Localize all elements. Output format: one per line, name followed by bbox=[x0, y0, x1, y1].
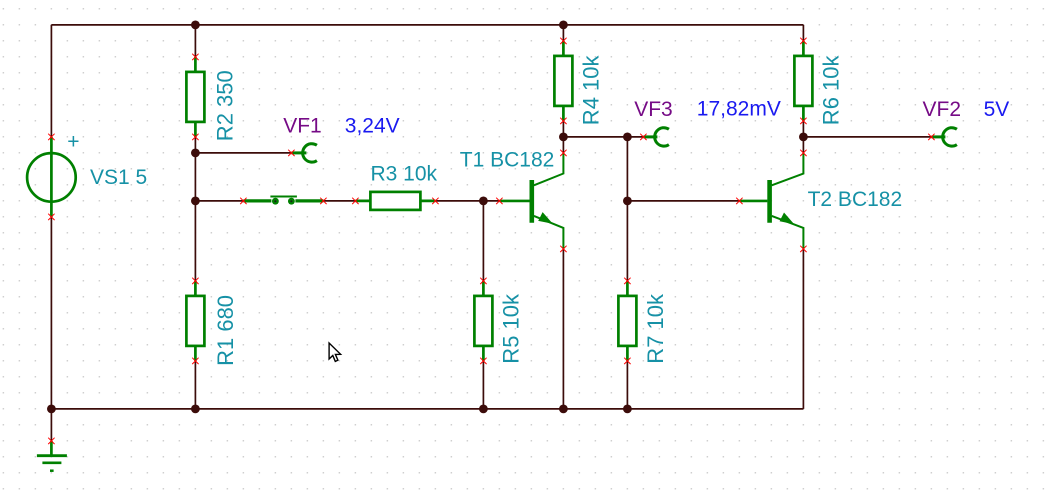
probe VF3 bbox=[634, 98, 781, 146]
R2 body bbox=[186, 72, 204, 122]
pin R4 top bbox=[560, 38, 566, 44]
svg-text:T2 BC182: T2 BC182 bbox=[808, 188, 903, 211]
resistor R2 bbox=[186, 57, 237, 141]
node T2 collector bbox=[799, 133, 808, 142]
probe VF2 bbox=[923, 98, 1010, 146]
node bottom rail T1 emitter bbox=[559, 405, 568, 414]
wire bottom rail bbox=[51, 408, 803, 410]
T1 emitter lead bbox=[534, 216, 564, 249]
wire left rail lower bbox=[50, 217, 52, 409]
ground bar 2 bbox=[42, 461, 61, 464]
transistor T2 BC182 bbox=[739, 153, 902, 249]
wire T2 base row bbox=[627, 200, 739, 202]
wire R7 top column bbox=[626, 137, 628, 281]
ground bbox=[37, 441, 67, 471]
pin VS1 - bbox=[48, 214, 54, 220]
svg-text:R2 350: R2 350 bbox=[212, 70, 237, 141]
wire T1 emitter to bottom rail bbox=[562, 249, 564, 409]
pin R1 top bbox=[192, 278, 198, 284]
node R5 tap bbox=[479, 197, 488, 206]
pin T2 collector bbox=[800, 150, 806, 156]
R7 body bbox=[618, 296, 636, 346]
wire switch to R3 bbox=[323, 200, 355, 202]
wire VF2 row bbox=[803, 136, 931, 138]
wire R5 bottom bbox=[482, 361, 484, 409]
wire T2 emitter drop bbox=[802, 249, 804, 409]
pin switch left bbox=[240, 198, 246, 204]
R6 body bbox=[794, 56, 812, 106]
R3 body bbox=[370, 192, 420, 210]
wire top-right drop to R6 bbox=[802, 25, 804, 41]
wire R4 top bbox=[562, 25, 564, 41]
resistor R6 bbox=[794, 41, 843, 125]
switch right contact wire bbox=[295, 199, 323, 202]
pin ground bbox=[48, 438, 54, 444]
pin R2 bottom bbox=[192, 134, 198, 140]
wire R2 top bbox=[194, 25, 196, 57]
node T1 collector bbox=[559, 133, 568, 142]
ground stem bbox=[50, 441, 53, 456]
R1 body bbox=[186, 296, 204, 346]
ground bar 1 bbox=[37, 454, 67, 457]
VF2 probe hook bbox=[943, 128, 957, 146]
resistor R7 bbox=[618, 281, 668, 364]
pin R6 top bbox=[800, 38, 806, 44]
wire VF1 row bbox=[195, 152, 291, 154]
T1 base lead bbox=[499, 200, 529, 203]
node top rail / R2 bbox=[191, 21, 200, 30]
wire R2 bottom to R1 top bbox=[194, 137, 196, 281]
pin R4 bottom bbox=[560, 118, 566, 124]
pin R6 bottom bbox=[800, 118, 806, 124]
svg-text:R3 10k: R3 10k bbox=[371, 162, 438, 185]
voltage source VS1 bbox=[27, 131, 147, 217]
wire R3 to T1 base bbox=[435, 200, 499, 202]
wire base row to switch bbox=[195, 200, 243, 202]
T1 collector lead bbox=[534, 153, 564, 185]
wire left rail upper bbox=[50, 25, 52, 137]
pin T2 emitter bbox=[800, 246, 806, 252]
T2 base lead bbox=[739, 200, 767, 203]
pin T1 base bbox=[496, 198, 502, 204]
pin T1 collector bbox=[560, 150, 566, 156]
wire VF3 row bbox=[563, 136, 643, 138]
T2 emitter arrow bbox=[780, 213, 795, 225]
T2 collector lead bbox=[772, 153, 804, 185]
pin VF3 bbox=[640, 134, 646, 140]
svg-text:R5 10k: R5 10k bbox=[498, 293, 523, 364]
wire R6 bottom to T2 collector bbox=[802, 121, 804, 153]
svg-text:VF1: VF1 bbox=[283, 115, 322, 138]
svg-text:3,24V: 3,24V bbox=[345, 115, 400, 138]
pin R5 bottom bbox=[480, 358, 486, 364]
svg-text:R4 10k: R4 10k bbox=[579, 54, 604, 125]
pin R5 top bbox=[480, 278, 486, 284]
pin T2 base bbox=[736, 198, 742, 204]
pin VS1 + bbox=[48, 134, 54, 140]
T2 base bar bbox=[767, 180, 772, 223]
resistor R4 bbox=[554, 41, 603, 125]
node bottom rail R7 bbox=[623, 405, 632, 414]
pin R7 bottom bbox=[624, 358, 630, 364]
switch contact right bbox=[288, 198, 295, 205]
node top rail / R4 bbox=[559, 21, 568, 30]
T1 emitter arrow bbox=[538, 212, 553, 224]
VF1 probe hook bbox=[303, 144, 317, 162]
node bottom rail R5 bbox=[479, 405, 488, 414]
switch left contact wire bbox=[243, 199, 271, 202]
node VF1 tap bbox=[191, 149, 200, 158]
resistor R1 bbox=[186, 281, 238, 366]
R5 body bbox=[474, 296, 492, 346]
wire R5 top bbox=[482, 201, 484, 281]
pin R2 top bbox=[192, 54, 198, 60]
probe VF1 bbox=[283, 115, 399, 163]
resistor R5 bbox=[474, 281, 523, 364]
pin R7 top bbox=[624, 278, 630, 284]
node bottom rail R1 bbox=[191, 405, 200, 414]
T1 base bar bbox=[529, 180, 534, 223]
wire top rail bbox=[51, 24, 803, 26]
pin R3 left bbox=[352, 198, 358, 204]
svg-text:17,82mV: 17,82mV bbox=[697, 98, 781, 121]
ground bar 3 bbox=[50, 469, 54, 472]
svg-text:VF3: VF3 bbox=[634, 98, 673, 121]
pin markers (red x) bbox=[48, 38, 934, 444]
VF2 probe lead bbox=[931, 135, 945, 138]
pin VF1 bbox=[288, 150, 294, 156]
VF3 probe lead bbox=[643, 135, 657, 138]
svg-text:T1 BC182: T1 BC182 bbox=[460, 148, 555, 171]
svg-text:R7 10k: R7 10k bbox=[643, 293, 668, 364]
resistor R3 bbox=[355, 162, 437, 210]
svg-text:VS1 5: VS1 5 bbox=[90, 166, 147, 189]
VS1 internal lead bbox=[50, 137, 53, 217]
wire R4 bottom to T1 collector bbox=[562, 121, 564, 153]
VF1 probe lead bbox=[291, 151, 306, 154]
svg-text:+: + bbox=[67, 131, 79, 154]
VS1 circle body bbox=[27, 153, 76, 202]
R4 body bbox=[554, 56, 572, 106]
switch contact left bbox=[272, 198, 279, 205]
pin switch right bbox=[320, 198, 326, 204]
pin R1 bottom bbox=[192, 358, 198, 364]
svg-text:R6 10k: R6 10k bbox=[819, 54, 844, 125]
pin T1 emitter bbox=[560, 246, 566, 252]
node R7 top bbox=[623, 133, 632, 142]
svg-text:R1 680: R1 680 bbox=[213, 295, 238, 366]
pin VF2 bbox=[928, 134, 934, 140]
switch closed blade bbox=[270, 196, 297, 198]
wire ground stem bbox=[50, 409, 52, 441]
switch / jumper SW bbox=[243, 197, 323, 205]
wire R7 bottom bbox=[626, 361, 628, 409]
pin R3 right bbox=[432, 198, 438, 204]
T2 emitter lead bbox=[772, 216, 804, 249]
wires (dark) bbox=[51, 25, 931, 441]
node bottom rail left bbox=[47, 405, 56, 414]
wire R1 bottom bbox=[194, 361, 196, 409]
node T2 base bbox=[623, 197, 632, 206]
node R2/R1 divider bbox=[191, 197, 200, 206]
VF3 probe hook bbox=[655, 128, 669, 146]
svg-text:5V: 5V bbox=[984, 98, 1010, 121]
mouse cursor bbox=[329, 343, 341, 361]
transistor T1 BC182 bbox=[460, 148, 564, 249]
svg-text:VF2: VF2 bbox=[923, 98, 962, 121]
